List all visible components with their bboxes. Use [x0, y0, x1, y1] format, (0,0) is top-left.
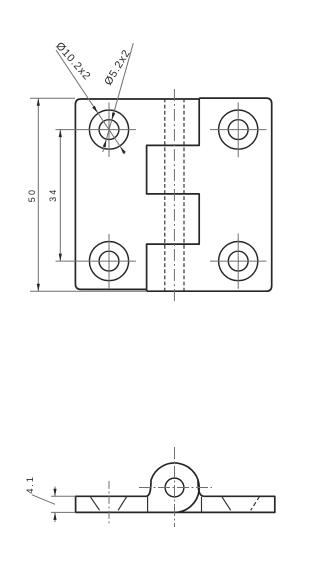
svg-text:4.1: 4.1 [25, 475, 36, 494]
svg-text:50: 50 [27, 188, 37, 202]
svg-text:34: 34 [48, 187, 58, 201]
